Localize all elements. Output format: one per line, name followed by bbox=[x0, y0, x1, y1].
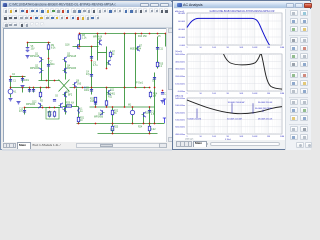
resistor R2 47k bbox=[39, 92, 41, 98]
ground below V5 bbox=[26, 56, 30, 58]
node J19 bbox=[29, 87, 31, 89]
plot3 grid box bbox=[187, 98, 282, 134]
schematic canvas bbox=[3, 28, 166, 142]
svg-text:300.000m: 300.000m bbox=[175, 69, 185, 71]
svg-text:100n: 100n bbox=[84, 90, 90, 92]
svg-text:1K: 1K bbox=[226, 47, 229, 49]
svg-text:490.000m: 490.000m bbox=[175, 134, 185, 136]
node J47 bbox=[132, 123, 134, 125]
wire x38 res drop bbox=[40, 88, 42, 99]
svg-text:IN: IN bbox=[84, 88, 87, 90]
svg-text:530.000m: 530.000m bbox=[175, 105, 185, 107]
node J8 bbox=[141, 33, 143, 35]
wire x104 mid column bbox=[106, 88, 108, 108]
transistor Q13 MPSA18 bbox=[59, 103, 63, 108]
svg-text:1M: 1M bbox=[267, 136, 270, 138]
svg-text:100: 100 bbox=[48, 115, 53, 117]
transistor Q7 MJE15034 bbox=[136, 46, 140, 51]
transistor Q9 BF245A bbox=[63, 92, 67, 97]
vertical scrollbar bbox=[166, 28, 172, 142]
svg-text:96.060K 248.787M: 96.060K 248.787M bbox=[255, 108, 272, 110]
node J3 bbox=[79, 33, 81, 35]
svg-text:1K: 1K bbox=[226, 93, 229, 95]
node J15 bbox=[10, 76, 12, 78]
svg-text:Q11: Q11 bbox=[110, 90, 115, 92]
svg-text:80.000: 80.000 bbox=[178, 13, 185, 15]
capacitor C12 47u bbox=[23, 111, 26, 113]
capacitor C15 100p bbox=[94, 103, 97, 105]
capacitor C2b 100n bbox=[32, 90, 35, 92]
svg-text:47u: 47u bbox=[19, 111, 24, 113]
svg-text:M1: M1 bbox=[128, 105, 132, 107]
svg-text:0.22: 0.22 bbox=[151, 129, 156, 131]
node J16 bbox=[22, 76, 24, 78]
node J55 bbox=[162, 90, 164, 92]
plot3 curve bbox=[187, 100, 282, 114]
node J18 bbox=[22, 87, 24, 89]
svg-text:0.1: 0.1 bbox=[159, 66, 163, 68]
node J14 bbox=[48, 58, 50, 60]
svg-text:C1: C1 bbox=[13, 81, 17, 83]
svg-text:20.000: 20.000 bbox=[178, 37, 185, 39]
capacitor C10 100n bbox=[161, 93, 164, 95]
wire x46 base column bbox=[48, 77, 50, 88]
node J29 bbox=[135, 87, 137, 89]
wire upper link y78 bbox=[39, 80, 60, 82]
plot3 cursor line 4 bbox=[196, 109, 198, 119]
wire x27 cap drop bbox=[29, 88, 31, 93]
wire x22 cap drop bbox=[24, 108, 26, 115]
wire cross b bbox=[59, 80, 70, 92]
resistor R24 0.22 bbox=[148, 126, 150, 132]
node J51 bbox=[112, 133, 114, 135]
wire x72 q column bbox=[76, 89, 78, 107]
svg-text:400.000m: 400.000m bbox=[175, 61, 185, 63]
svg-text:1: 1 bbox=[186, 93, 188, 95]
capacitor C3 4.7u bbox=[90, 57, 93, 59]
node J42 bbox=[132, 106, 134, 108]
wire V5 drop bbox=[27, 43, 29, 47]
svg-text:56: 56 bbox=[114, 113, 117, 115]
capacitor C16 1.5u bbox=[148, 111, 151, 113]
wire x152 column bbox=[154, 73, 156, 124]
svg-text:100: 100 bbox=[212, 93, 216, 95]
resistor R19 100 bbox=[53, 111, 55, 118]
svg-text:R2: R2 bbox=[40, 101, 44, 103]
node J23 bbox=[48, 87, 50, 89]
svg-text:MPSA18: MPSA18 bbox=[67, 55, 77, 58]
node J48 bbox=[143, 123, 145, 125]
resistor R25 680 bbox=[94, 97, 96, 101]
wire x76 output column bbox=[78, 107, 80, 124]
transistor Q1 MPSA18 bbox=[39, 57, 43, 62]
node J49 bbox=[149, 123, 151, 125]
svg-text:220n: 220n bbox=[50, 64, 56, 66]
plot1 x-axis labels bbox=[186, 47, 284, 49]
svg-text:100.000m: 100.000m bbox=[175, 84, 185, 86]
plot2 x-axis labels bbox=[186, 93, 284, 95]
svg-text:1K: 1K bbox=[226, 136, 229, 138]
node J46 bbox=[112, 123, 114, 125]
wire x63 lower chain bbox=[65, 92, 67, 115]
plot1 grid box bbox=[187, 13, 282, 45]
inductor L1 bbox=[78, 108, 80, 114]
wire C3 column bbox=[91, 47, 93, 95]
transistor Q11 2N5401 bbox=[107, 90, 111, 95]
svg-text:1M: 1M bbox=[267, 93, 270, 95]
svg-text:15V: 15V bbox=[31, 49, 36, 51]
svg-text:1.2k: 1.2k bbox=[82, 38, 87, 40]
node J5 bbox=[105, 33, 107, 35]
probe P1 bbox=[163, 99, 166, 105]
wire bottom rail y131 bbox=[98, 133, 158, 135]
svg-text:C15: C15 bbox=[90, 101, 95, 103]
capacitor C2 100n bbox=[28, 90, 31, 92]
ground below C0 bbox=[21, 86, 25, 88]
ground lower-left bbox=[17, 102, 21, 104]
svg-text:AX: AX bbox=[71, 102, 75, 105]
node J34 bbox=[42, 107, 44, 109]
app icon bbox=[3, 3, 7, 7]
ground below C10 bbox=[161, 101, 165, 103]
wire top rail right bbox=[80, 33, 166, 35]
transistor Q14 MPSA56 bbox=[100, 110, 104, 115]
node J54 bbox=[91, 60, 93, 62]
node J7 bbox=[135, 33, 137, 35]
window buttons bbox=[140, 3, 149, 8]
svg-text:C11: C11 bbox=[159, 49, 164, 51]
svg-text:0.000: 0.000 bbox=[180, 45, 186, 47]
wire x31 cap drop bbox=[33, 88, 35, 93]
svg-text:P Out1: P Out1 bbox=[136, 82, 144, 85]
wire x133 column bbox=[135, 34, 137, 88]
svg-text:100: 100 bbox=[212, 47, 216, 49]
current meter M1 bbox=[130, 110, 134, 114]
node J4 bbox=[97, 33, 99, 35]
svg-text:Q8: Q8 bbox=[76, 81, 80, 83]
node J31 bbox=[149, 87, 151, 89]
svg-text:100K: 100K bbox=[252, 136, 258, 138]
svg-text:10K: 10K bbox=[239, 47, 243, 49]
left application window (schematic editor) bbox=[0, 0, 172, 150]
svg-text:GAINCLONE-BIGBX-REVISED-DL-BYP: GAINCLONE-BIGBX-REVISED-DL-BYPAS-REVNG-M… bbox=[210, 10, 275, 13]
node J56 bbox=[154, 87, 156, 89]
wire bottom-left rail y105 bbox=[25, 107, 61, 109]
svg-text:MPSA18: MPSA18 bbox=[93, 36, 103, 39]
svg-text:MPSA56: MPSA56 bbox=[26, 103, 36, 106]
svg-text:1: 1 bbox=[186, 47, 188, 49]
capacitor C4 47p bbox=[90, 75, 93, 77]
wire R3 column bbox=[79, 33, 81, 47]
node J33 bbox=[54, 80, 56, 82]
svg-text:BF2: BF2 bbox=[68, 94, 73, 96]
wire x130 meter column bbox=[132, 107, 134, 124]
node J21 bbox=[40, 87, 42, 89]
transistor Q6 2N5551 bbox=[107, 60, 111, 65]
node J9 bbox=[149, 33, 151, 35]
svg-text:4.7: 4.7 bbox=[153, 96, 157, 98]
wire lower rail y104 right bbox=[90, 106, 155, 108]
resistor R11 560 bbox=[105, 100, 107, 107]
svg-text:510.000m: 510.000m bbox=[175, 120, 185, 122]
plot3 y-axis labels bbox=[175, 98, 185, 136]
svg-text:10: 10 bbox=[199, 136, 202, 138]
svg-text:Q10: Q10 bbox=[66, 106, 71, 108]
transistor Q12 MPSA56 bbox=[38, 103, 42, 108]
svg-text:Q7: Q7 bbox=[139, 46, 143, 48]
node J36 bbox=[54, 107, 56, 109]
capacitor C6 220n bbox=[53, 100, 56, 102]
node J12 bbox=[79, 46, 81, 48]
svg-text:30.060K 100.0M: 30.060K 100.0M bbox=[227, 119, 242, 121]
svg-text:V1: V1 bbox=[14, 92, 18, 94]
page tab bar with horizontal scrollbar bbox=[2, 142, 172, 149]
wire link y104 bbox=[63, 106, 79, 108]
wire x110 column bbox=[112, 107, 114, 134]
svg-text:48.060K 230.1K: 48.060K 230.1K bbox=[258, 119, 273, 121]
bottom tab/scroll bar bbox=[174, 140, 285, 148]
svg-text:60.000: 60.000 bbox=[178, 21, 185, 23]
capacitor C5 100n bbox=[90, 90, 93, 92]
node J2 bbox=[48, 42, 50, 44]
svg-text:10M: 10M bbox=[280, 47, 284, 49]
node J1 bbox=[27, 42, 29, 44]
svg-text:500.000m: 500.000m bbox=[175, 54, 185, 56]
svg-text:1M: 1M bbox=[267, 47, 270, 49]
wire x20 input drop bbox=[22, 77, 24, 83]
svg-text:MPSA56: MPSA56 bbox=[67, 67, 77, 70]
plot1 y-axis labels bbox=[178, 13, 185, 47]
voltage source V5 15V bbox=[26, 46, 30, 52]
wire x46 lower bbox=[48, 71, 50, 77]
wire input top row bbox=[11, 76, 26, 78]
svg-text:1u: 1u bbox=[80, 111, 83, 113]
resistor R21 10 bbox=[77, 117, 79, 123]
svg-text:47p: 47p bbox=[86, 74, 91, 76]
svg-text:Q18: Q18 bbox=[65, 45, 70, 47]
node J28 bbox=[124, 87, 126, 89]
svg-text:C2: C2 bbox=[12, 74, 16, 76]
wire x39 chain column bbox=[41, 62, 43, 81]
plot3 x-axis labels bbox=[186, 136, 284, 138]
svg-text:dB(v(out)): dB(v(out)) bbox=[175, 10, 185, 13]
svg-text:MJE15034: MJE15034 bbox=[130, 49, 142, 51]
plot2 grid box bbox=[187, 54, 282, 91]
svg-text:10K: 10K bbox=[239, 93, 243, 95]
svg-text:10M: 10M bbox=[280, 136, 284, 138]
svg-text:2N5401: 2N5401 bbox=[107, 93, 116, 95]
transistor Q18 input bbox=[76, 44, 80, 49]
transistor Q5 MPSA18 bbox=[98, 40, 102, 45]
right window (AC Analysis) bbox=[172, 0, 311, 150]
capacitor C11 1u bbox=[156, 48, 159, 50]
wire mid rail right bbox=[70, 87, 151, 89]
svg-text:15: 15 bbox=[158, 36, 161, 38]
node J30 bbox=[144, 87, 146, 89]
wire Q5 column bbox=[97, 34, 99, 61]
svg-text:MPSA18: MPSA18 bbox=[30, 55, 40, 58]
svg-text:(V(out)): (V(out)) bbox=[175, 50, 182, 53]
capacitor C0 100n bbox=[21, 79, 24, 81]
plot3 cursor line 2 bbox=[252, 103, 254, 114]
right-side tool palette bbox=[285, 9, 311, 150]
node J20 bbox=[33, 87, 35, 89]
plot2 y-axis labels bbox=[175, 54, 185, 93]
svg-text:18.060K 234.0KHZ: 18.060K 234.0KHZ bbox=[228, 102, 246, 104]
node J44 bbox=[78, 123, 80, 125]
node J25 bbox=[82, 87, 84, 89]
svg-text:4.7u: 4.7u bbox=[93, 65, 98, 67]
resistor R7 1k bbox=[109, 51, 111, 59]
node J32 bbox=[46, 80, 48, 82]
resistor R15 0.1 bbox=[156, 61, 158, 69]
node J13 bbox=[91, 46, 93, 48]
wire x147 column bbox=[149, 107, 151, 134]
close button bbox=[304, 3, 312, 8]
node J40 bbox=[112, 106, 114, 108]
analysis plots area bbox=[174, 9, 285, 140]
svg-text:8.2k: 8.2k bbox=[51, 48, 56, 50]
wire mid rail left bbox=[11, 87, 51, 89]
svg-text:9.060K 234.1M: 9.060K 234.1M bbox=[188, 119, 202, 121]
wire R9 column bbox=[48, 43, 50, 71]
transistor Q15 MJE15034 bbox=[142, 112, 146, 117]
wire x141 q column bbox=[143, 113, 145, 124]
svg-text:10: 10 bbox=[199, 93, 202, 95]
svg-text:Q14: Q14 bbox=[98, 114, 103, 116]
svg-text:100K: 100K bbox=[252, 47, 258, 49]
svg-text:0.22: 0.22 bbox=[110, 129, 115, 131]
svg-text:MPSA56: MPSA56 bbox=[94, 115, 104, 118]
wire cross a bbox=[59, 80, 70, 92]
wire top rail left bbox=[28, 42, 51, 44]
wire x20 cap drop bbox=[22, 88, 24, 93]
transistor Q8 2N5551 bbox=[73, 82, 77, 87]
title text bbox=[9, 2, 116, 6]
svg-text:R24: R24 bbox=[138, 127, 143, 129]
wire x63 chain column bbox=[65, 62, 67, 80]
wire q outputs link bbox=[98, 52, 107, 54]
node J24 bbox=[74, 87, 76, 89]
transistor Q10 MPSA18 bbox=[63, 107, 67, 112]
svg-text:Q15: Q15 bbox=[145, 113, 150, 115]
node J6 bbox=[124, 33, 126, 35]
svg-text:500.000m: 500.000m bbox=[175, 127, 185, 129]
wire upper mid row bbox=[73, 46, 99, 48]
plot1 gain curve bbox=[187, 18, 270, 45]
wire x93 column bbox=[95, 98, 97, 108]
max button bbox=[295, 3, 303, 8]
AC analysis window icon bbox=[177, 3, 182, 8]
resistor R20 horizontal bbox=[67, 105, 72, 107]
svg-text:2N5: 2N5 bbox=[77, 83, 82, 85]
svg-text:36.060K 234.0K: 36.060K 234.0K bbox=[258, 102, 273, 104]
probe P2 bbox=[163, 118, 166, 123]
wire lower rail y121 bbox=[77, 123, 158, 125]
capacitor C9 1u bbox=[153, 78, 156, 80]
svg-text:C9: C9 bbox=[152, 81, 156, 83]
resistor R9 8.2k bbox=[47, 44, 49, 51]
svg-text:Q9: Q9 bbox=[66, 92, 70, 94]
svg-text:100K: 100K bbox=[252, 93, 258, 95]
node J22 bbox=[46, 87, 48, 89]
svg-text:10M: 10M bbox=[280, 93, 284, 95]
node J39 bbox=[106, 106, 108, 108]
plot3 cursor line 3 bbox=[262, 110, 264, 112]
svg-text:C6: C6 bbox=[55, 96, 59, 98]
min button bbox=[286, 3, 294, 8]
svg-text:(dB(out)): (dB(out)) bbox=[175, 95, 184, 98]
node J52 bbox=[149, 133, 151, 135]
node J17 bbox=[10, 87, 12, 89]
resistor R18 box bbox=[46, 108, 59, 120]
node J26 bbox=[91, 87, 93, 89]
svg-text:0.000m: 0.000m bbox=[178, 91, 185, 93]
node J27 bbox=[106, 87, 108, 89]
svg-text:40.000: 40.000 bbox=[178, 29, 185, 31]
node J35 bbox=[49, 107, 51, 109]
svg-text:100n: 100n bbox=[24, 80, 30, 82]
wire x155 upper column bbox=[157, 37, 159, 69]
wire x104 upper column bbox=[106, 47, 108, 69]
node J10 bbox=[157, 33, 159, 35]
ground below V1 bbox=[9, 99, 13, 101]
resistor R14 4.7 bbox=[149, 91, 151, 99]
node J50 bbox=[154, 123, 156, 125]
node J53 bbox=[106, 68, 108, 70]
wire x162 probe link bbox=[158, 123, 165, 125]
node J37 bbox=[24, 107, 26, 109]
svg-text:10: 10 bbox=[199, 47, 202, 49]
svg-text:R11: R11 bbox=[108, 97, 113, 99]
transistor Q2 MPSA56 bbox=[39, 68, 43, 73]
plot3 cursor line 1 bbox=[231, 103, 233, 113]
transistor Q4 MPSA56 bbox=[63, 68, 67, 73]
wire x122 column bbox=[124, 34, 126, 108]
node J11 bbox=[165, 33, 167, 35]
wire x163 drop bbox=[165, 34, 167, 47]
svg-text:10: 10 bbox=[80, 120, 83, 122]
node J41 bbox=[124, 106, 126, 108]
svg-text:540.000m: 540.000m bbox=[175, 98, 185, 100]
node J43 bbox=[149, 106, 151, 108]
wire x8 input column bbox=[10, 77, 12, 98]
resistor R22 56 bbox=[111, 110, 113, 116]
resistor R17 100 bbox=[48, 111, 50, 118]
transistor Q3 MPSA18 bbox=[63, 57, 67, 62]
AC Analysis title text bbox=[183, 2, 203, 7]
resistor R3 1.2k bbox=[78, 34, 80, 41]
node J45 bbox=[95, 123, 97, 125]
svg-text:1k: 1k bbox=[112, 54, 115, 56]
svg-text:200.000m: 200.000m bbox=[175, 76, 185, 78]
capacitor C7 220n bbox=[47, 65, 50, 67]
svg-text:MPSA56: MPSA56 bbox=[30, 67, 40, 70]
svg-text:520.000m: 520.000m bbox=[175, 112, 185, 114]
resistor R23 0.22 bbox=[111, 126, 113, 132]
svg-text:100: 100 bbox=[212, 136, 216, 138]
svg-text:R13 150: R13 150 bbox=[138, 36, 147, 38]
toolbar rows bbox=[2, 7, 172, 28]
node J38 bbox=[95, 106, 97, 108]
plot2 curve bbox=[224, 54, 283, 89]
input source V1 bbox=[8, 89, 13, 94]
svg-text:10K: 10K bbox=[239, 136, 243, 138]
capacitor C1 2.2u bbox=[9, 80, 12, 82]
svg-text:R23: R23 bbox=[114, 127, 119, 129]
